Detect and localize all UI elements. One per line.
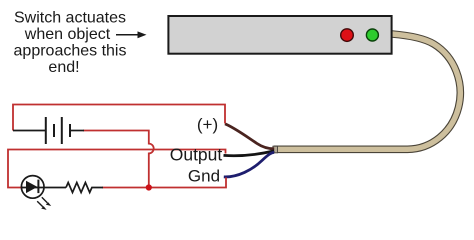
cable: [274, 34, 461, 149]
annotation text: [14, 10, 127, 77]
svg-text:approaches this: approaches this: [14, 43, 127, 60]
green indicator LED: [366, 29, 378, 41]
battery B1: [13, 117, 84, 144]
sensor body: [168, 16, 391, 54]
svg-text:Switch actuates: Switch actuates: [14, 10, 126, 27]
wire: bottom rail right of resistor: [102, 178, 226, 188]
junction node: [146, 184, 152, 190]
wire: battery- down with hop over output line: [83, 131, 154, 188]
wire: battery+ top rail to (+): [13, 105, 225, 131]
arrow: [116, 31, 147, 38]
blue ground wire: [224, 152, 274, 177]
black output wire: [224, 151, 275, 156]
svg-text:when object: when object: [24, 26, 111, 43]
red wiring: [8, 105, 226, 188]
cable end cap: [273, 146, 278, 153]
red indicator LED: [341, 29, 354, 42]
svg-text:(+): (+): [197, 115, 218, 134]
svg-text:end!: end!: [48, 59, 79, 76]
wire: output line / LED loop / gnd rail: [8, 150, 226, 188]
svg-text:Output: Output: [170, 144, 223, 164]
svg-text:Gnd: Gnd: [188, 166, 220, 185]
resistor R1: [66, 183, 103, 193]
brown (+) wire: [225, 124, 274, 149]
LED D1: [21, 176, 66, 210]
